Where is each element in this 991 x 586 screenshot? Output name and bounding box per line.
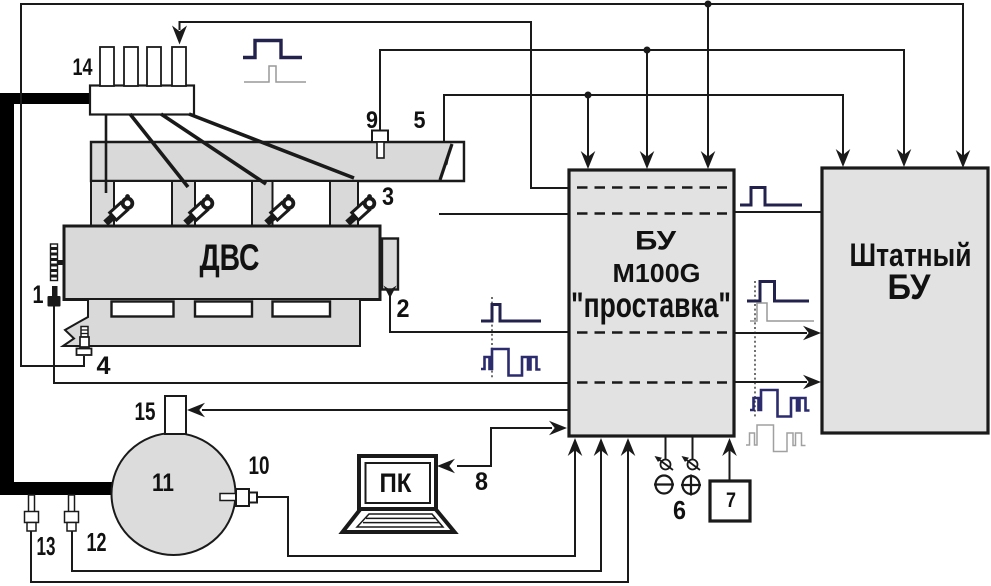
- waveform pulse navy (injection out): [747, 282, 809, 302]
- svg-text:14: 14: [73, 54, 93, 81]
- dashed line 1: [577, 186, 727, 189]
- waveform pulse (ignition out, between boxes): [740, 188, 802, 206]
- power bus thick line: [0, 93, 112, 495]
- wire M100G to Штатный БУ (ignition out): [734, 211, 822, 213]
- exhaust window 3: [273, 302, 331, 317]
- crank sensor toothed strip: [51, 244, 58, 281]
- arrowhead into Штатный БУ top pin 1: [836, 149, 851, 167]
- wire D: throttle sensor 5 to both control units: [444, 95, 843, 156]
- intake runner block: [91, 181, 358, 226]
- dashed line 3: [577, 331, 727, 334]
- wire branch D to M100G top pin 1: [587, 95, 589, 158]
- svg-text:13: 13: [37, 531, 56, 561]
- waveform PWM navy (crank out): [750, 390, 810, 417]
- coil prong 3: [147, 47, 161, 86]
- arrowhead up: [568, 438, 583, 456]
- wire I: M100G to PC link: [457, 428, 552, 466]
- arrowhead up: [594, 438, 609, 456]
- injector 3: [262, 193, 297, 227]
- pipe 15: [165, 396, 186, 434]
- svg-text:M100G: M100G: [613, 258, 701, 288]
- node junction on wire D: [585, 92, 592, 99]
- wire valve 10 to M100G bottom pin 1: [257, 449, 575, 556]
- intake manifold / fuel rail 5: [91, 142, 464, 181]
- arrowhead into coil block: [172, 26, 187, 45]
- arrowhead into Штатный БУ top pin 3: [956, 150, 971, 168]
- wire box 7 to M100G bottom: [729, 449, 731, 481]
- svg-text:1: 1: [33, 281, 44, 309]
- wire F: sensor 2 to M100G: [390, 296, 569, 332]
- potentiometer right (6): [688, 460, 698, 470]
- arrowhead into M100G top pin 1: [581, 151, 596, 169]
- arrowhead into M100G top pin 3: [701, 151, 716, 169]
- wire C: sensor 9 to both control units: [380, 50, 904, 156]
- node junction on wire A: [705, 1, 712, 8]
- wire connector 13 to M100G bottom pin 3: [31, 449, 628, 582]
- svg-text:11: 11: [152, 469, 174, 497]
- arrow below sensor 2: [383, 286, 396, 299]
- sensor 9 on rail: [372, 131, 388, 143]
- exhaust window 1: [112, 302, 174, 317]
- arrowhead up: [722, 438, 737, 456]
- intake window 3: [273, 181, 331, 226]
- control unit M100G: [569, 170, 734, 436]
- wire potentiometer left to M100G bottom: [665, 437, 667, 459]
- throttle valve: [440, 144, 452, 180]
- arrowhead into M100G left: [549, 421, 567, 436]
- plus adjuster: [683, 476, 700, 494]
- arrowhead into PC: [437, 459, 455, 474]
- wire H: M100G to canister valve pipe 15: [202, 409, 569, 411]
- dotted timing line left: [491, 297, 493, 379]
- svg-text:12: 12: [87, 527, 107, 557]
- arrowhead at pipe 15: [187, 403, 205, 418]
- waveform pulse (injection in): [481, 305, 541, 322]
- dotted timing line right: [754, 281, 756, 418]
- intake window 4 open: [360, 183, 439, 225]
- svg-text:2: 2: [397, 295, 410, 323]
- svg-text:4: 4: [97, 352, 111, 380]
- coil prong 1: [100, 47, 114, 86]
- wire G: sensor 1 to M100G: [54, 306, 569, 383]
- sensor 2 (right of engine): [382, 239, 398, 290]
- connector 13: [29, 495, 35, 512]
- waveform PWM (crank in): [481, 349, 541, 376]
- coil block 14 body: [90, 86, 194, 115]
- wire branch A to M100G top pin 3: [707, 4, 709, 158]
- svg-text:6: 6: [673, 495, 686, 525]
- dashed line 2: [577, 212, 727, 215]
- intake window 1: [114, 181, 172, 226]
- coil prong 4: [172, 47, 186, 86]
- waveform pulse gray (injection out): [750, 303, 814, 321]
- wire B: ignition control from M100G to coil block 14: [180, 22, 569, 188]
- injector 1: [101, 193, 136, 227]
- wire potentiometer right to M100G bottom: [692, 437, 694, 459]
- wire connector 12 to M100G bottom pin 2: [72, 449, 601, 571]
- exhaust manifold band: [63, 299, 360, 346]
- box 7: [710, 481, 750, 521]
- potentiometer left (6): [661, 460, 671, 470]
- svg-text:7: 7: [726, 489, 736, 512]
- HT lead cylinder 1: [105, 114, 108, 193]
- svg-text:БУ: БУ: [888, 268, 932, 307]
- minus adjuster: [656, 476, 673, 494]
- svg-text:9: 9: [366, 107, 378, 134]
- HT lead cylinder 2: [130, 114, 188, 187]
- arrowhead into Штатный БУ top pin 2: [897, 149, 912, 167]
- waveform PWM gray (crank out): [746, 425, 806, 452]
- coil prong 2: [124, 47, 138, 86]
- HT lead cylinder 3: [161, 114, 266, 184]
- lambda sensor 4: [81, 327, 88, 338]
- svg-text:8: 8: [475, 468, 488, 496]
- HT lead cylinder 4: [189, 114, 354, 178]
- wire M100G to Штатный БУ (lower): [734, 381, 807, 383]
- arrowhead up: [621, 438, 636, 456]
- injector 4: [343, 193, 378, 227]
- svg-text:3: 3: [382, 183, 394, 211]
- wire M100G to Штатный БУ (middle): [734, 332, 807, 334]
- svg-text:10: 10: [249, 452, 270, 480]
- exhaust window 2: [195, 302, 252, 317]
- wire branch C to M100G top pin 2: [646, 50, 648, 158]
- svg-text:"проставка": "проставка": [571, 286, 731, 325]
- laptop keyboard: [343, 509, 455, 532]
- svg-text:ПК: ПК: [380, 468, 412, 498]
- connector 12: [69, 495, 75, 512]
- intake window 2: [195, 181, 252, 226]
- wire E: injector control from M100G to injector 3: [404, 213, 569, 215]
- dashed line 4: [577, 381, 727, 384]
- injector 2: [181, 193, 216, 227]
- node junction on wire C: [644, 47, 651, 54]
- svg-text:ДВС: ДВС: [200, 237, 260, 278]
- valve 10: [220, 494, 237, 501]
- arrowhead at injector: [390, 207, 408, 222]
- waveform pulse (ignition, top left): [243, 41, 302, 58]
- sensor 1: [52, 286, 58, 297]
- wire A: lambda sensor 4 to both control units (top rail): [21, 4, 963, 366]
- canister 11: [112, 433, 236, 555]
- arrowhead into M100G top pin 2: [640, 151, 655, 169]
- laptop ПК screen: [359, 456, 436, 509]
- engine block ДВС: [64, 226, 380, 300]
- svg-text:БУ: БУ: [635, 226, 677, 256]
- svg-text:5: 5: [414, 107, 426, 134]
- stock control unit Штатный БУ: [822, 168, 988, 433]
- svg-text:15: 15: [135, 398, 156, 426]
